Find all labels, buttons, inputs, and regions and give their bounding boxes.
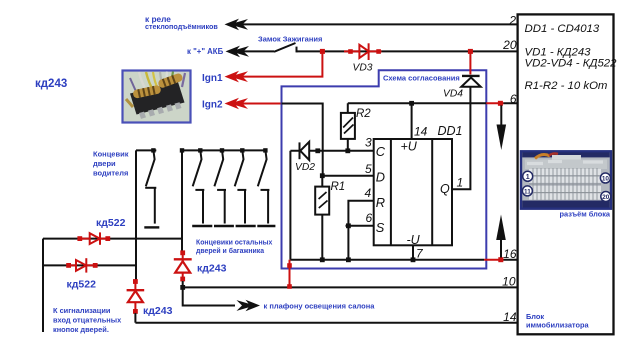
arrow to relay (left) [225,19,249,31]
node D junction [320,173,325,178]
node VD4 top red dot [468,49,473,54]
svg-text:Концевик: Концевик [93,149,129,158]
svg-text:R: R [376,195,385,210]
wire line2 to relay [231,23,518,25]
svg-text:VD1 - КД243: VD1 - КД243 [525,46,592,58]
wire line D (pin5) [322,175,373,177]
pin circle 10 [600,173,610,183]
svg-text:6: 6 [366,211,373,225]
svg-text:кд243: кд243 [35,78,67,90]
node red drop bottom dot [287,284,292,289]
arrow ign1 (red,left) [225,71,249,83]
ignition switch blade [274,43,296,52]
node line10 dot [180,285,185,290]
wire VD2 red drop to line10 [289,260,291,288]
node red drop top dot [287,263,292,268]
node R1-drop rail junction [320,257,325,262]
node S-drop rail junction [346,257,351,262]
svg-text:кнопок дверей.: кнопок дверей. [53,325,109,334]
svg-text:Концевики остальных: Концевики остальных [196,239,273,246]
wire kd522 line2 [43,264,136,266]
svg-text:стеклоподъёмников: стеклоподъёмников [145,22,218,31]
wire ign2 (red) [230,103,282,105]
arrow up near pin16 [500,234,502,258]
driver door switch [136,148,159,227]
svg-text:Ign2: Ign2 [202,100,223,111]
svg-text:5: 5 [365,162,372,176]
svg-text:кд522: кд522 [67,279,97,291]
svg-text:дверей и багажника: дверей и багажника [196,247,264,255]
node S junction [346,223,351,228]
resistor R1 [315,176,329,260]
svg-text:DD1: DD1 [438,124,463,138]
wire alarm rail [42,239,44,332]
photo IC with diodes [123,71,191,123]
svg-text:D: D [376,169,385,184]
diode VD3 [344,43,382,60]
node VD3 cathode dot [376,49,381,54]
svg-text:VD4: VD4 [443,89,463,100]
wire to plafon [183,287,235,305]
svg-text:1: 1 [457,175,464,189]
svg-text:к плафону освещения салона: к плафону освещения салона [264,301,376,310]
wire rail line16 [290,259,517,261]
svg-text:20: 20 [602,194,610,201]
diode kd522 #1 [78,232,109,244]
wire VD4 top (red) [469,51,471,74]
matching-circuit blue box [282,70,487,268]
wire VD2 cathode down [289,151,291,260]
wire line20 left segment [232,50,274,52]
wire ign2 inner branch [282,104,323,176]
svg-text:R1-R2 - 10 kOm: R1-R2 - 10 kOm [525,80,608,92]
wire line6 red segment [486,102,503,104]
svg-text:1: 1 [526,174,530,181]
switch group top wire [182,149,267,151]
door switches x4 [192,148,275,226]
svg-text:16: 16 [503,247,517,261]
svg-text:иммобилизатора: иммобилизатора [526,320,589,329]
svg-text:кд243: кд243 [143,305,173,317]
svg-text:20: 20 [502,38,517,52]
switch group left drop [181,150,183,250]
wire line20 right segment [297,50,519,52]
svg-text:К сигнализации: К сигнализации [53,306,111,315]
node line6 red dot [498,101,503,106]
svg-text:14: 14 [414,125,428,139]
svg-text:Q: Q [440,182,450,196]
photo connector [521,151,611,208]
wire line C (pin3) [290,150,373,152]
wire line10 [183,286,518,288]
ignition switch contact [296,47,298,53]
arrow down near pin6 [500,105,502,132]
svg-text:S: S [376,220,385,235]
arrow to plafon (right) [237,300,261,312]
svg-text:вход отцательных: вход отцательных [53,316,122,325]
wire line14 [135,322,517,324]
arrow to AKB (left) [226,46,250,58]
arrow ign2 (red,left) [225,98,249,110]
svg-text:11: 11 [524,189,531,196]
svg-text:4: 4 [365,186,372,200]
resistor R2 [341,103,355,151]
svg-text:6: 6 [510,92,517,106]
svg-text:Замок Зажигания: Замок Зажигания [258,35,322,44]
pin circle 11 [522,186,532,196]
svg-text:10: 10 [602,176,610,183]
node pin14 junction [409,101,414,106]
svg-text:Ign1: Ign1 [202,73,223,84]
pin circle 1 [523,171,533,181]
svg-text:разъём блока: разъём блока [560,210,611,219]
svg-text:Схема согласования: Схема согласования [383,73,460,82]
node sw left [180,148,184,152]
svg-text:VD2-VD4 - КД522: VD2-VD4 - КД522 [525,58,618,70]
diode kd522 #2 [67,258,96,272]
wire line R (pin4) [348,201,373,226]
svg-text:кд522: кд522 [96,217,126,229]
wire driver switch drop [135,150,137,281]
wire Q output (pin1) [452,87,470,190]
wire ign1 (red) [230,51,322,76]
wire line S (pin6) [346,226,374,260]
svg-text:R2: R2 [356,108,371,120]
svg-text:2: 2 [508,13,516,27]
svg-text:двери: двери [93,159,116,168]
node line16 red dot [498,257,503,262]
immobilizer block box [518,14,614,334]
svg-text:DD1 - CD4013: DD1 - CD4013 [525,23,600,35]
svg-text:к "+" АКБ: к "+" АКБ [187,47,224,56]
svg-text:кд243: кд243 [197,263,227,275]
node ign junction (red) [320,49,325,54]
svg-text:-U: -U [407,233,421,247]
node pin7-rail junction [411,257,416,262]
pin circle 20 [601,192,611,202]
svg-text:C: C [376,144,386,159]
wire line16 red segment [484,259,504,261]
node VD3 anode dot [348,49,353,54]
svg-text:R1: R1 [331,181,346,193]
svg-text:водителя: водителя [93,168,128,177]
wire pin14 [411,103,413,139]
node C junction [315,148,320,153]
diode VD4 [461,76,480,87]
diode kd243 #1 [174,250,192,287]
diode VD2 [300,142,310,160]
svg-text:VD2: VD2 [295,162,315,173]
wire line6 [348,102,518,104]
svg-text:VD3: VD3 [353,62,373,73]
op-amp DD1 chip body [374,139,452,245]
node R2 bottom junction [345,148,350,153]
diode kd243 #2 [127,279,145,323]
wire pin7 [412,245,414,259]
svg-text:+U: +U [401,140,418,154]
wire kd522 line1 [43,238,182,240]
svg-text:3: 3 [365,136,372,150]
